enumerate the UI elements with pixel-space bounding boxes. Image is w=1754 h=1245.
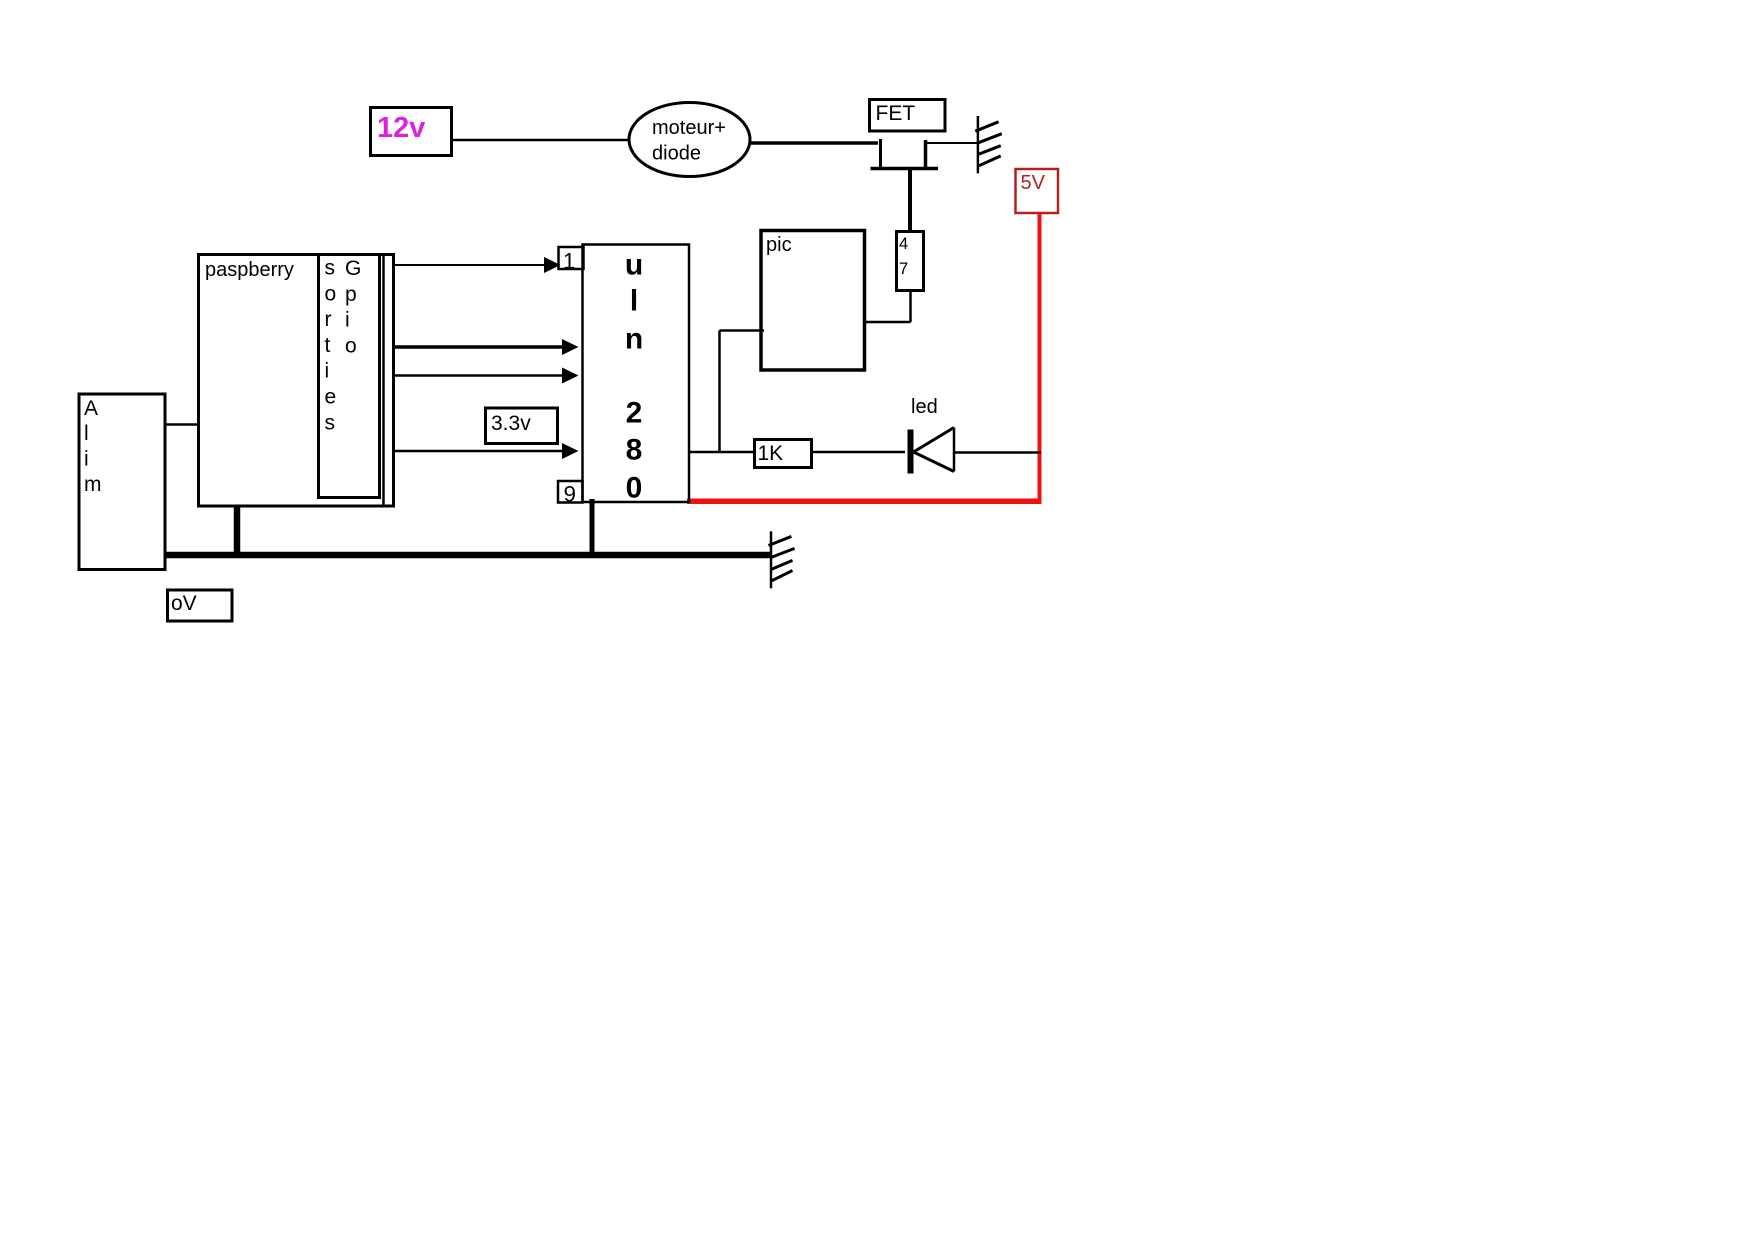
wire uln ground stub: [590, 499, 595, 556]
pin 9: [558, 481, 583, 507]
svg-text:9: 9: [564, 482, 577, 507]
supply box 5V: [1016, 169, 1059, 213]
svg-text:diode: diode: [652, 143, 701, 165]
wire resistor 47 bottom: [909, 291, 912, 322]
svg-text:3.3v: 3.3v: [491, 412, 531, 435]
svg-text:e: e: [325, 386, 337, 409]
svg-text:1K: 1K: [758, 442, 784, 465]
wire gpio arrow 4: [394, 443, 579, 459]
svg-text:s: s: [325, 257, 336, 280]
wire Alim to paspberry: [165, 423, 199, 426]
supply Alim: [79, 394, 165, 570]
svg-text:paspberry: paspberry: [205, 259, 294, 281]
wire to pic right side: [865, 321, 911, 324]
ic U1 uln280: [583, 245, 690, 505]
svg-text:n: n: [625, 323, 643, 356]
wire 5V red vertical: [1038, 213, 1042, 501]
wire FET drain to ground: [927, 142, 977, 144]
port block sorties Gpio: [319, 255, 380, 498]
wire ground bus 0V: [166, 552, 771, 559]
wire gpio arrow 1 to pin1: [394, 257, 561, 273]
svg-text:pic: pic: [766, 234, 792, 256]
svg-text:7: 7: [899, 260, 908, 278]
svg-text:oV: oV: [171, 592, 197, 615]
wire gpio partition line: [382, 255, 385, 507]
wire FET source down to resistor 47: [908, 169, 912, 233]
svg-text:1: 1: [563, 249, 575, 274]
svg-text:m: m: [84, 473, 102, 496]
svg-text:12v: 12v: [377, 112, 425, 144]
svg-text:5V: 5V: [1021, 172, 1046, 194]
svg-text:led: led: [911, 396, 938, 418]
wire pic left side: [720, 329, 765, 332]
wire gpio arrow 3: [394, 368, 579, 384]
svg-text:t: t: [325, 334, 331, 357]
svg-text:0: 0: [626, 472, 643, 505]
svg-text:o: o: [345, 334, 357, 357]
svg-text:p: p: [345, 283, 357, 306]
wire pic down to uln output: [718, 331, 721, 453]
wire 1K to led: [812, 451, 906, 454]
wire uln output to 1K: [689, 451, 754, 454]
svg-text:moteur+: moteur+: [652, 117, 726, 139]
wire paspberry ground stub: [234, 505, 241, 555]
label box FET: [870, 100, 946, 132]
svg-text:s: s: [325, 411, 336, 434]
svg-text:o: o: [325, 282, 337, 305]
svg-text:r: r: [325, 308, 332, 331]
wire led to 5V rail: [954, 451, 1041, 454]
svg-text:i: i: [345, 309, 350, 332]
svg-text:A: A: [84, 397, 98, 420]
pin 1: [559, 247, 584, 274]
supply box 12v: [371, 108, 452, 156]
ic raspberry: [199, 255, 394, 507]
ic U2 pic: [761, 231, 865, 371]
wire 5V red horizontal to uln pin: [687, 499, 1042, 505]
led D1: [908, 396, 955, 474]
svg-text:i: i: [84, 448, 89, 471]
ground chassis at bus end: [769, 531, 795, 588]
label box oV: [168, 590, 233, 621]
svg-text:l: l: [630, 285, 638, 318]
svg-text:l: l: [84, 422, 89, 445]
motor M1 moteur+diode: [629, 103, 750, 177]
svg-text:4: 4: [899, 235, 908, 253]
ground chassis at FET: [975, 116, 1002, 173]
svg-text:G: G: [345, 257, 361, 280]
resistor R2 1K: [755, 440, 812, 468]
svg-text:FET: FET: [876, 102, 916, 125]
svg-text:u: u: [625, 249, 643, 282]
svg-text:8: 8: [626, 434, 643, 467]
svg-text:2: 2: [626, 397, 643, 430]
transistor FET symbol: [871, 139, 939, 170]
svg-text:i: i: [325, 360, 330, 383]
wire 12v to moteur: [452, 139, 629, 142]
wire gpio arrow 2: [394, 339, 579, 355]
label box 3.3v: [486, 408, 558, 444]
wire moteur to FET: [750, 141, 878, 145]
resistor R1 47: [897, 232, 924, 291]
